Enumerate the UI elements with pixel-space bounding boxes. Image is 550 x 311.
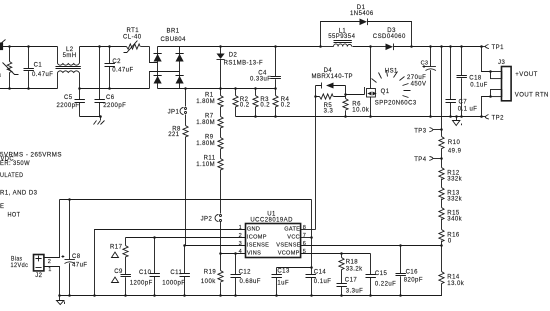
svg-text:450V: 450V bbox=[411, 82, 427, 88]
capacitor C1 bbox=[24, 47, 54, 89]
node TP4 bbox=[440, 157, 443, 160]
node divider at rail bbox=[440, 45, 443, 48]
wire R11 to JP2 bbox=[220, 170, 222, 214]
svg-text:C15: C15 bbox=[375, 271, 388, 277]
resistor R8 221 bbox=[168, 115, 188, 139]
svg-text:GND: GND bbox=[247, 227, 260, 233]
svg-text:JP2: JP2 bbox=[201, 216, 213, 222]
wire R1 to R7 bbox=[220, 107, 222, 117]
svg-text:VCOMP: VCOMP bbox=[278, 251, 300, 257]
connector J3 bbox=[491, 60, 512, 101]
node C2 bottom bbox=[108, 87, 111, 90]
svg-text:2200pF: 2200pF bbox=[103, 103, 126, 109]
svg-text:VOUT RTN: VOUT RTN bbox=[515, 93, 549, 99]
node C7 top bbox=[449, 45, 452, 48]
svg-text:R18: R18 bbox=[346, 259, 359, 265]
wire J2 pin2 to bias rail bbox=[45, 200, 60, 258]
svg-text:R17: R17 bbox=[110, 244, 123, 250]
svg-text:R1, AND D3: R1, AND D3 bbox=[0, 191, 38, 197]
wire ICOMP pin 2 bbox=[126, 237, 246, 239]
capacitor C16 820pF bbox=[396, 246, 423, 296]
node C7 bottom bbox=[449, 115, 452, 118]
capacitor C17 3.3uF bbox=[337, 270, 364, 296]
svg-text:VCC: VCC bbox=[287, 234, 300, 240]
wire gate drive vertical bbox=[315, 97, 317, 230]
node Q1 source bbox=[369, 115, 372, 118]
svg-text:12Vdc: 12Vdc bbox=[11, 263, 29, 269]
svg-text:5: 5 bbox=[303, 249, 306, 255]
node C2 top bbox=[108, 45, 111, 48]
svg-text:0.1uF: 0.1uF bbox=[470, 82, 488, 88]
capacitor C7 0.1uF bbox=[446, 47, 478, 117]
node C1 top bbox=[27, 45, 30, 48]
svg-text:2200pF: 2200pF bbox=[57, 103, 80, 109]
wire bias rail to VCC bbox=[60, 199, 312, 201]
wire GATE pin 8 bbox=[301, 229, 316, 231]
node C9 bottom bbox=[124, 294, 127, 297]
op-amp U1 UCC28019AD bbox=[246, 212, 301, 258]
capacitor C15 0.22uF bbox=[366, 254, 397, 296]
test point TP1 bbox=[482, 45, 505, 52]
node gate network right bbox=[344, 93, 347, 96]
wire rail D3 to output bbox=[412, 46, 482, 48]
diode D1 1N5406 bbox=[350, 5, 374, 25]
svg-text:3.3: 3.3 bbox=[324, 108, 334, 114]
svg-text:C18: C18 bbox=[469, 75, 482, 81]
svg-text:0.33uF: 0.33uF bbox=[250, 77, 271, 83]
diode D2 RS1MB-13-F bbox=[217, 47, 264, 89]
node C10 bottom bbox=[153, 294, 156, 297]
capacitor C2 bbox=[105, 47, 134, 89]
node R6 bottom bbox=[344, 115, 347, 118]
svg-text:C14: C14 bbox=[314, 269, 327, 275]
svg-text:R19: R19 bbox=[204, 270, 217, 276]
svg-text:0.68uF: 0.68uF bbox=[240, 279, 261, 285]
wire VSENSE pin 6 bbox=[301, 245, 442, 247]
capacitor C13 1uF bbox=[272, 268, 312, 296]
svg-text:TP2: TP2 bbox=[492, 116, 505, 122]
node C15 bottom bbox=[369, 294, 372, 297]
svg-text:8: 8 bbox=[303, 225, 306, 231]
svg-text:C6: C6 bbox=[106, 95, 115, 101]
node C13 at VCC column bbox=[310, 266, 313, 269]
svg-text:1.10M: 1.10M bbox=[196, 162, 215, 168]
wire AC1 jog into bridge bbox=[150, 47, 158, 63]
wire divider tap to R14 bbox=[441, 246, 443, 272]
svg-text:820pF: 820pF bbox=[404, 278, 423, 284]
resistor R18 33.2k bbox=[339, 254, 363, 273]
svg-text:340k: 340k bbox=[447, 217, 462, 223]
node C11 top bbox=[183, 244, 186, 247]
wire J2 pin1 to ground rail bbox=[45, 267, 60, 296]
node C18 top bbox=[460, 45, 463, 48]
svg-text:0.22uF: 0.22uF bbox=[375, 282, 396, 288]
heatsink HS1 bbox=[372, 69, 411, 98]
resistor R4 0.2 bbox=[273, 89, 291, 117]
node TP2 bbox=[480, 115, 483, 118]
svg-text:R15: R15 bbox=[447, 210, 460, 216]
capacitor C6 line-to-earth bbox=[95, 47, 127, 117]
resistor R1 1.80M bbox=[196, 89, 223, 107]
diode D3 CSD04060 bbox=[373, 28, 412, 50]
wire R16 to VSENSE node bbox=[441, 241, 443, 246]
wire VCOMP pin 5 bbox=[301, 253, 371, 255]
svg-text:ISENSE: ISENSE bbox=[247, 242, 269, 248]
thermistor RT1 CL-40 bbox=[123, 28, 142, 52]
svg-text:270uF: 270uF bbox=[407, 75, 426, 81]
resistor R14 13.0k bbox=[439, 272, 465, 287]
node VSENSE divider tap bbox=[440, 244, 443, 247]
test point TP2 bbox=[482, 115, 505, 122]
node D1 right bbox=[410, 45, 413, 48]
wire top rail after choke bbox=[80, 46, 127, 48]
resistor R15 340k bbox=[439, 208, 463, 223]
svg-text:2: 2 bbox=[48, 259, 51, 265]
svg-text:R16: R16 bbox=[447, 232, 460, 238]
resistor R19 100k bbox=[201, 254, 223, 296]
node J3 return tab bbox=[489, 95, 492, 98]
svg-text:CSD04060: CSD04060 bbox=[373, 34, 406, 40]
resistor R17 bbox=[110, 238, 128, 258]
ground symbol right bbox=[453, 117, 462, 126]
svg-text:0.47uF: 0.47uF bbox=[32, 72, 53, 78]
svg-text:1.80M: 1.80M bbox=[196, 99, 215, 105]
svg-text:U1: U1 bbox=[267, 212, 276, 218]
svg-text:C12: C12 bbox=[239, 269, 252, 275]
svg-text:D4: D4 bbox=[324, 68, 333, 74]
node C18 bottom bbox=[460, 115, 463, 118]
node C6 top bbox=[98, 45, 101, 48]
wire VCC pin 7 bbox=[301, 237, 312, 239]
svg-text:47uF: 47uF bbox=[72, 263, 87, 269]
svg-text:R7: R7 bbox=[205, 114, 214, 120]
ground symbol left bbox=[57, 296, 65, 305]
svg-text:C10: C10 bbox=[139, 270, 152, 276]
wire output divider top bbox=[441, 47, 443, 137]
wire earth rail bbox=[80, 116, 101, 118]
svg-text:Q1: Q1 bbox=[381, 89, 390, 95]
svg-text:ER: 350W: ER: 350W bbox=[0, 161, 30, 167]
svg-text:HOT: HOT bbox=[8, 213, 21, 219]
svg-text:J2: J2 bbox=[35, 273, 42, 279]
svg-text:ICOMP: ICOMP bbox=[247, 234, 267, 240]
svg-text:0.1 uF: 0.1 uF bbox=[458, 106, 478, 112]
svg-text:C9: C9 bbox=[114, 269, 123, 275]
resistor R13 332k bbox=[439, 188, 463, 203]
node C3 bottom bbox=[429, 115, 432, 118]
svg-text:BR1: BR1 bbox=[167, 28, 180, 34]
wire GND pin 1 bbox=[95, 230, 246, 296]
node J2 return at rail bbox=[58, 294, 61, 297]
node varistor top bbox=[8, 45, 11, 48]
wire VCC column bbox=[311, 200, 313, 275]
test point TP3 bbox=[414, 128, 441, 135]
node C17 bottom bbox=[340, 294, 343, 297]
connector J2 bias input bbox=[34, 255, 44, 280]
svg-text:MBRX140-TP: MBRX140-TP bbox=[312, 74, 354, 80]
svg-text:0.2: 0.2 bbox=[281, 103, 291, 109]
svg-text:C7: C7 bbox=[459, 100, 468, 106]
svg-text:UCC28019AD: UCC28019AD bbox=[250, 218, 293, 224]
svg-text:R9: R9 bbox=[205, 135, 214, 141]
svg-text:R12: R12 bbox=[447, 171, 460, 177]
svg-text:1uF: 1uF bbox=[277, 280, 289, 286]
node JP1 top bbox=[184, 87, 187, 90]
node R2 top bbox=[234, 87, 237, 90]
node R4 bottom bbox=[274, 115, 277, 118]
svg-text:RS1MB-13-F: RS1MB-13-F bbox=[224, 61, 264, 67]
svg-text:0: 0 bbox=[448, 238, 452, 244]
label Bias 12Vdc bbox=[11, 256, 29, 269]
resistor R16 0 bbox=[439, 230, 460, 245]
svg-text:332k: 332k bbox=[447, 197, 462, 203]
svg-text:a: a bbox=[0, 73, 2, 79]
node C10 top bbox=[153, 236, 156, 239]
svg-text:1: 1 bbox=[48, 267, 51, 273]
svg-text:100k: 100k bbox=[201, 279, 216, 285]
node R3 top bbox=[254, 87, 257, 90]
node C12 bottom bbox=[234, 294, 237, 297]
svg-text:C13: C13 bbox=[277, 269, 290, 275]
svg-text:1.80M: 1.80M bbox=[196, 141, 215, 147]
wire Q1 source to ground rail bbox=[370, 97, 372, 117]
svg-text:JP1: JP1 bbox=[168, 109, 180, 115]
node gate network left bbox=[314, 95, 317, 98]
svg-text:RT1: RT1 bbox=[127, 28, 140, 34]
varistor RV1 bbox=[0, 47, 19, 89]
node varistor bottom bbox=[8, 87, 11, 90]
wire bottom rail after choke bbox=[80, 88, 150, 90]
svg-text:C2: C2 bbox=[112, 59, 121, 65]
svg-text:Bias: Bias bbox=[11, 256, 23, 262]
svg-text:R11: R11 bbox=[204, 156, 216, 162]
chassis earth symbol bbox=[94, 117, 105, 125]
node J3 positive tab bbox=[489, 70, 492, 73]
node C1 bottom bbox=[27, 87, 30, 90]
capacitor C10 1200pF bbox=[130, 238, 160, 296]
resistor R10 49.9 bbox=[439, 137, 462, 155]
node D2 top bbox=[219, 45, 222, 48]
resistor R9 1.80M bbox=[196, 135, 223, 150]
svg-text:VINS: VINS bbox=[247, 251, 261, 257]
svg-text:221: 221 bbox=[168, 132, 180, 138]
capacitor C9 bbox=[112, 257, 131, 296]
svg-text:HS1: HS1 bbox=[385, 69, 398, 75]
svg-text:1N5406: 1N5406 bbox=[350, 11, 374, 17]
resistor R12 332k bbox=[439, 168, 463, 183]
svg-text:SPP20N60C3: SPP20N60C3 bbox=[375, 101, 417, 107]
capacitor C12 0.68uF bbox=[231, 254, 261, 296]
svg-text:C8: C8 bbox=[72, 254, 81, 260]
node TP3 bbox=[440, 128, 443, 131]
node TP1 bbox=[480, 45, 483, 48]
wire power ground rail bbox=[236, 116, 482, 118]
svg-text:R14: R14 bbox=[447, 275, 460, 281]
svg-text:J3: J3 bbox=[498, 60, 505, 66]
inductor L2 common-mode choke bbox=[56, 47, 81, 89]
node VINS C12 bbox=[234, 252, 237, 255]
svg-text:1.80M: 1.80M bbox=[196, 120, 215, 126]
wire D1 bypass branch bbox=[321, 22, 412, 47]
node GND corner bottom bbox=[93, 294, 96, 297]
svg-text:55P9354: 55P9354 bbox=[328, 34, 355, 40]
jumper JP1 bbox=[168, 89, 187, 116]
wire R8 to ISENSE line bbox=[185, 137, 187, 246]
svg-text:VSENSE: VSENSE bbox=[276, 242, 301, 248]
wire ISENSE pin 3 bbox=[185, 245, 246, 247]
svg-text:C3: C3 bbox=[421, 60, 429, 66]
wire R10 to TP4 bbox=[441, 149, 443, 168]
svg-text:TP1: TP1 bbox=[492, 45, 505, 51]
capacitor C11 1000pF bbox=[162, 246, 190, 296]
resistor R2 0.2 bbox=[233, 89, 250, 117]
capacitor C14 0.1uF bbox=[306, 269, 332, 295]
node C8 top bbox=[68, 198, 71, 201]
svg-text:C5: C5 bbox=[64, 95, 73, 101]
capacitor C5 line-to-earth bbox=[57, 89, 85, 117]
svg-text:R10: R10 bbox=[448, 140, 461, 146]
node C11 bottom bbox=[183, 294, 186, 297]
wire R12 to R13 bbox=[441, 179, 443, 188]
wire R14 to bottom rail bbox=[60, 284, 442, 296]
test point TP4 bbox=[414, 157, 441, 164]
svg-text:0.2: 0.2 bbox=[240, 103, 250, 109]
wire VINS pin 4 bbox=[221, 253, 246, 255]
svg-text:C17: C17 bbox=[345, 278, 358, 284]
node D2 bottom bbox=[219, 87, 222, 90]
resistor R6 10.0k bbox=[343, 99, 370, 117]
wire top rail AC segment bbox=[0, 46, 58, 48]
wire top rail RT1 to bridge bbox=[141, 46, 150, 48]
inductor L1 55P9354 bbox=[321, 28, 371, 46]
svg-text:332k: 332k bbox=[447, 177, 462, 183]
node D1 left bbox=[319, 45, 322, 48]
svg-text:1000pF: 1000pF bbox=[162, 281, 185, 287]
node C14 bottom bbox=[310, 294, 313, 297]
wire AC2 jog into bridge bbox=[150, 72, 180, 89]
wire JP2 to VINS bbox=[220, 222, 222, 254]
svg-text:GATE: GATE bbox=[284, 227, 300, 233]
node C13 bottom bbox=[275, 294, 278, 297]
svg-text:CL-40: CL-40 bbox=[123, 35, 142, 41]
wire R9 to R11 bbox=[220, 149, 222, 159]
svg-text:13.0k: 13.0k bbox=[447, 281, 464, 287]
node Q1 drain at rail bbox=[369, 45, 372, 48]
node R19 bottom bbox=[219, 294, 222, 297]
node C3 top bbox=[429, 45, 432, 48]
svg-text:0.47uF: 0.47uF bbox=[112, 67, 133, 73]
node VINS R19 bbox=[219, 252, 222, 255]
capacitor C4 0.33uF bbox=[250, 47, 281, 89]
resistor R5 3.3 bbox=[316, 86, 346, 115]
wire DC- bus bridge to C4 bbox=[180, 88, 276, 90]
svg-text:2: 2 bbox=[239, 233, 242, 239]
svg-text:49.9: 49.9 bbox=[448, 148, 462, 154]
svg-text:C11: C11 bbox=[170, 270, 182, 276]
svg-text:5mH: 5mH bbox=[63, 53, 77, 59]
bridge rectifier BR1 CBU804 bbox=[154, 28, 187, 88]
svg-text:R1: R1 bbox=[205, 92, 214, 98]
diode D4 MBRX140-TP bbox=[312, 68, 354, 89]
svg-text:4: 4 bbox=[239, 249, 242, 255]
clipped input connector J1 bbox=[0, 40, 6, 51]
svg-text:1200pF: 1200pF bbox=[130, 281, 153, 287]
resistor R11 1.10M bbox=[196, 156, 223, 171]
node C5 top bbox=[78, 87, 81, 90]
node R3 bottom bbox=[254, 115, 257, 118]
wire bottom rail AC segment bbox=[0, 88, 58, 90]
wire J3 positive lead bbox=[482, 47, 491, 72]
svg-text:R13: R13 bbox=[447, 191, 460, 197]
wire DC+ bus bridge to L1 bbox=[180, 46, 321, 48]
svg-text:+VOUT: +VOUT bbox=[515, 72, 537, 78]
svg-text:0.1uF: 0.1uF bbox=[314, 279, 332, 285]
svg-text:7: 7 bbox=[303, 233, 306, 239]
wire R15 to R16 bbox=[441, 219, 443, 230]
svg-text:C16: C16 bbox=[406, 269, 419, 275]
node ground stub right bbox=[455, 115, 458, 118]
svg-text:1: 1 bbox=[239, 225, 242, 231]
node C4 top bbox=[274, 45, 277, 48]
transistor Q1 SPP20N60C3 bbox=[346, 87, 417, 107]
capacitor C8 47uF bbox=[62, 200, 88, 296]
wire R13 to R15 bbox=[441, 199, 443, 208]
resistor R7 1.80M bbox=[196, 114, 223, 128]
wire R7 to R9 bbox=[220, 128, 222, 138]
svg-text:33.2k: 33.2k bbox=[346, 267, 363, 273]
svg-text:10.0k: 10.0k bbox=[352, 107, 369, 113]
svg-text:TP3: TP3 bbox=[414, 129, 427, 135]
wire J3 return lead bbox=[482, 97, 491, 117]
node C16 bottom bbox=[399, 294, 402, 297]
svg-text:CBU804: CBU804 bbox=[161, 37, 187, 43]
node R4 top bbox=[274, 87, 277, 90]
svg-text:3.3uF: 3.3uF bbox=[346, 288, 364, 294]
svg-text:0.2: 0.2 bbox=[260, 103, 270, 109]
svg-text:D2: D2 bbox=[229, 52, 238, 58]
capacitor C3 270uF 450V bbox=[407, 47, 436, 117]
svg-text:E: E bbox=[0, 204, 4, 210]
svg-text:TP4: TP4 bbox=[414, 157, 427, 163]
jumper JP2 bbox=[201, 215, 222, 223]
node R18 top bbox=[340, 252, 343, 255]
wire Q1 drain bbox=[370, 47, 372, 89]
svg-text:C1: C1 bbox=[34, 62, 43, 68]
svg-text:ULATED: ULATED bbox=[0, 173, 24, 179]
node C16 top bbox=[399, 244, 402, 247]
capacitor C18 0.1uF bbox=[457, 47, 488, 117]
wire rail L1 to D3 bbox=[371, 46, 386, 48]
node earth bbox=[99, 115, 102, 118]
node VCC column bbox=[310, 236, 313, 239]
node C8 bottom bbox=[68, 294, 71, 297]
resistor R3 0.2 bbox=[253, 89, 270, 117]
